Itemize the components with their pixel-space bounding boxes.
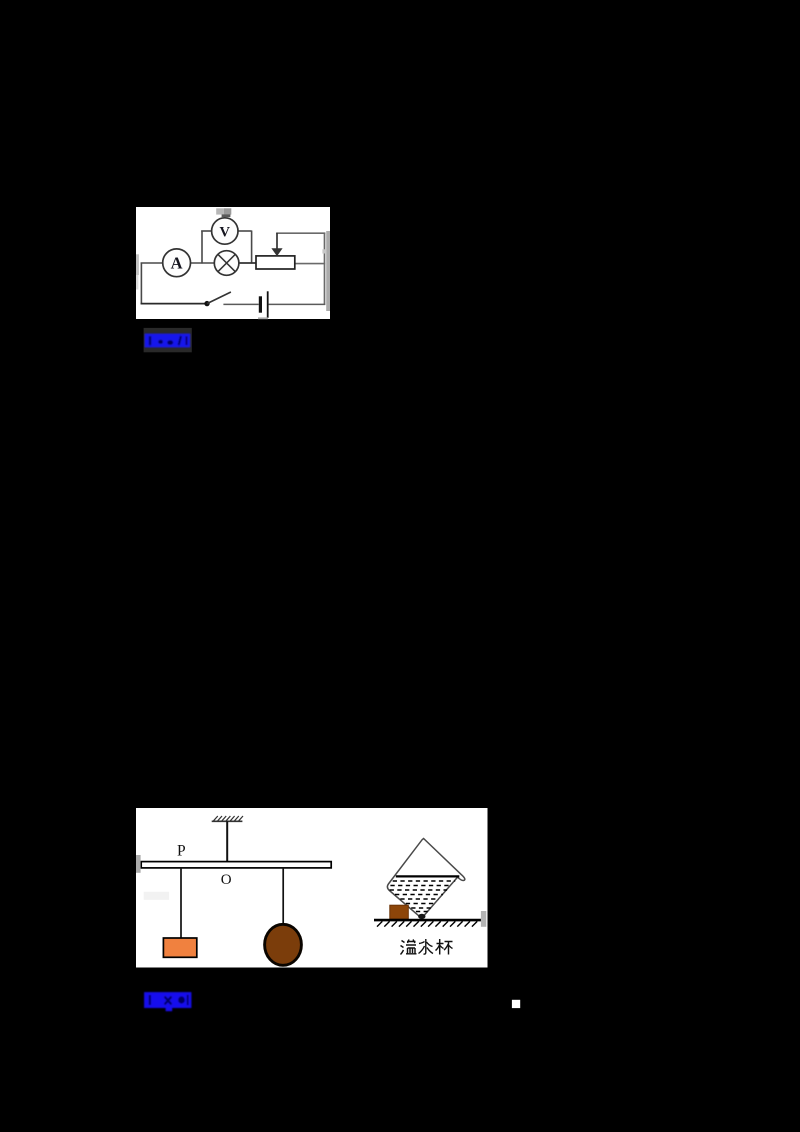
label 1 dark backdrop (144, 328, 192, 352)
brown support block under cup (390, 905, 409, 919)
right string (282, 868, 284, 926)
gray marks left edge of panel (136, 254, 139, 289)
wire rheostat right terminal to right bus (295, 263, 325, 265)
voltmeter V (212, 218, 238, 244)
cup bottom contact blob (418, 914, 425, 919)
wire voltmeter branch right (238, 230, 252, 232)
svg-text:O: O (221, 872, 232, 888)
switch S pivot dot (204, 301, 209, 306)
battery gray smudge at panel bottom (258, 317, 268, 319)
brown stone ellipse (265, 924, 302, 965)
switch S lever (207, 292, 231, 304)
ground hatch ticks (377, 921, 477, 926)
lever bar (141, 862, 331, 868)
caption 溢水杯 glyph 3 (bei) (436, 939, 453, 955)
gray marks left edge (136, 855, 141, 873)
wire lamp to rheostat (239, 262, 257, 264)
svg-text:V: V (220, 224, 231, 240)
wire bottom left to switch (141, 303, 207, 305)
orange weight block (163, 938, 196, 957)
wire switch to battery (223, 303, 258, 305)
wire battery to right bus (269, 303, 326, 305)
wire junction vertical to voltmeter branch (201, 231, 203, 264)
battery positive plate (long thin) (267, 291, 269, 317)
gray tab above voltmeter (216, 208, 231, 217)
wire left lead to ammeter (141, 262, 163, 264)
white square marker (512, 1000, 520, 1008)
water surface line (396, 875, 460, 877)
wire voltmeter branch left (201, 230, 212, 232)
gray artifact right edge (481, 911, 486, 927)
faint smudge (144, 892, 169, 900)
figure 1 panel background (136, 207, 330, 319)
figure 2 panel background (136, 808, 488, 968)
rheostat slider arrow (271, 233, 282, 256)
gray stripe right edge of panel (326, 231, 330, 311)
gray notch right edge (322, 249, 326, 253)
svg-text:A: A (171, 254, 183, 273)
left string (180, 868, 182, 938)
rheostat R body (256, 256, 295, 269)
ceiling support hatch (212, 816, 243, 821)
ammeter A (163, 249, 191, 277)
svg-text:P: P (177, 842, 186, 859)
caption 溢水杯 glyph 2 (shui) (419, 939, 434, 954)
wire ammeter to lamp with node junction (191, 262, 215, 264)
wire left vertical (140, 263, 142, 305)
water dashed shading (390, 881, 456, 912)
wire right vertical bus (324, 233, 326, 306)
battery negative plate (short thick) (259, 296, 262, 312)
ground line (374, 919, 481, 922)
caption 溢水杯 glyph 1 (yi) (401, 940, 417, 955)
lamp L (circle with X) (214, 251, 239, 276)
tilted overflow cup outline (387, 839, 464, 917)
wire top from slider (276, 232, 325, 234)
wire voltmeter-right vertical down to main line (251, 231, 253, 264)
label 2 blue text blob (144, 992, 191, 1011)
support rod to pivot O (226, 821, 228, 862)
label 1 blue text blob (145, 334, 191, 348)
